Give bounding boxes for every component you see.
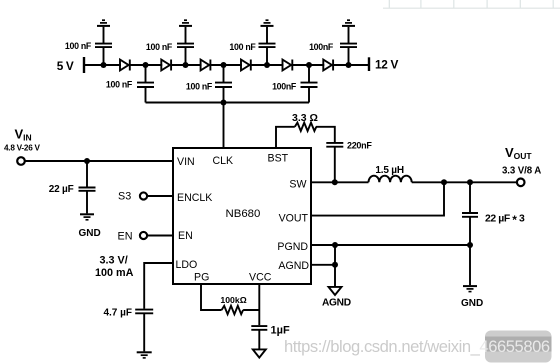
wire SW to inductor <box>311 181 369 183</box>
node AGND junction <box>332 262 338 268</box>
ground above C5 <box>261 20 274 26</box>
resistor R2 100k <box>222 306 243 314</box>
capacitor C10 1uF <box>251 326 267 348</box>
background table fragment top right <box>383 0 560 8</box>
diode D1 <box>120 60 130 71</box>
capacitor C5 100nF up <box>259 27 276 65</box>
svg-text:PG: PG <box>194 272 209 284</box>
svg-text:VIN: VIN <box>177 156 195 168</box>
svg-text:PGND: PGND <box>277 241 308 253</box>
svg-text:1.5 µH: 1.5 µH <box>375 165 403 176</box>
svg-text:100 nF: 100 nF <box>65 41 92 51</box>
ground below C12 <box>463 286 477 292</box>
wire VOUT sense <box>311 182 444 215</box>
diode D6 <box>323 60 333 71</box>
capacitor C2 100nF down <box>137 65 154 103</box>
wire PGND <box>311 244 470 246</box>
node rail 1 <box>101 62 107 68</box>
node rail 6 <box>306 62 312 68</box>
ground triangle AGND <box>329 287 342 295</box>
wire EN to IC <box>147 235 173 237</box>
ground below C8 <box>80 214 94 220</box>
terminal 5V <box>83 58 85 72</box>
svg-text:12 V: 12 V <box>375 58 398 72</box>
resistor R1 3.3ohm <box>295 123 316 131</box>
svg-text:BST: BST <box>268 153 289 165</box>
op-amp U1 NB680 body <box>173 148 311 284</box>
terminal 12V <box>368 59 370 70</box>
svg-text:3.3 V/: 3.3 V/ <box>100 255 128 267</box>
svg-text:100nF: 100nF <box>272 82 297 92</box>
svg-text:EN: EN <box>118 231 133 243</box>
svg-text:4.8 V-26 V: 4.8 V-26 V <box>4 144 41 153</box>
capacitor C12 22uF*3 <box>462 182 478 285</box>
ground above C3 <box>179 20 192 26</box>
wire BST loop <box>276 127 335 148</box>
svg-text:1µF: 1µF <box>271 325 290 337</box>
capacitor C4 100nF down <box>215 65 232 103</box>
node rail 4 <box>221 62 227 68</box>
wire LDO <box>144 263 173 309</box>
node rail 5 <box>264 62 270 68</box>
capacitor C1 100nF up <box>95 27 112 65</box>
capacitor C7 100nF up <box>340 27 357 65</box>
wire charge pump top rail <box>84 64 369 66</box>
node PGND-C12 junction <box>467 242 473 248</box>
svg-text:GND: GND <box>79 228 101 239</box>
wire S3 to ENCLK <box>147 195 173 197</box>
svg-text:4.7 µF: 4.7 µF <box>103 308 132 319</box>
svg-text:AGND: AGND <box>278 260 309 272</box>
node SW output 1 <box>441 179 447 185</box>
svg-text:100 nF: 100 nF <box>186 82 213 92</box>
svg-text:AGND: AGND <box>322 298 351 309</box>
svg-text:220nF: 220nF <box>347 141 372 151</box>
svg-text:22 µF: 22 µF <box>49 184 74 195</box>
svg-text:CLK: CLK <box>213 155 234 167</box>
svg-text:https://blog.csdn.net/weixin_4: https://blog.csdn.net/weixin_46655806 <box>284 337 550 356</box>
capacitor C6 100nF down <box>301 65 318 103</box>
svg-text:100nF: 100nF <box>309 42 334 52</box>
capacitor C3 100nF up <box>177 27 194 65</box>
diode D3 <box>201 60 211 71</box>
svg-text:3.3 Ω: 3.3 Ω <box>292 112 318 124</box>
wire inductor to VOUT terminal <box>412 181 517 183</box>
capacitor C8 22uF <box>79 161 96 213</box>
wire VCC down <box>258 284 260 325</box>
svg-text:SW: SW <box>289 179 306 191</box>
svg-text:GND: GND <box>461 298 483 309</box>
svg-text:EN: EN <box>178 230 193 242</box>
svg-text:VCC: VCC <box>249 272 272 284</box>
svg-text:100 nF: 100 nF <box>146 42 173 52</box>
wire resistor to VCC <box>243 309 259 311</box>
watermark <box>284 331 552 363</box>
diode D5 <box>283 60 293 71</box>
inductor L1 1.5uH <box>369 176 412 183</box>
svg-text:NB680: NB680 <box>226 208 261 220</box>
wire charge pump bottom bus <box>146 102 310 104</box>
ground above C7 <box>342 20 355 26</box>
diode D4 <box>241 60 251 71</box>
wire PG <box>201 284 222 310</box>
svg-text:ENCLK: ENCLK <box>177 192 212 204</box>
svg-text:100 nF: 100 nF <box>106 80 133 90</box>
svg-text:3.3 V/8 A: 3.3 V/8 A <box>502 166 541 177</box>
svg-text:5 V: 5 V <box>57 59 74 73</box>
node bus CLK junction <box>221 100 227 106</box>
capacitor C11 220nF <box>326 143 343 182</box>
svg-text:LDO: LDO <box>176 259 198 271</box>
node rail 2 <box>143 62 149 68</box>
svg-text:100kΩ: 100kΩ <box>220 295 246 305</box>
ground above C1 <box>97 20 110 26</box>
wire AGND <box>311 245 335 286</box>
ground triangle below C10 <box>253 349 266 357</box>
node BST-SW junction <box>332 179 338 185</box>
terminal S3 <box>140 192 147 199</box>
wire CLK to IC <box>223 103 225 149</box>
terminal EN <box>140 232 147 239</box>
node VIN / C8 <box>84 158 90 164</box>
node rail 3 <box>183 62 189 68</box>
diode D2 <box>161 60 171 71</box>
svg-text:100 mA: 100 mA <box>95 267 134 279</box>
svg-text:100 nF: 100 nF <box>229 42 256 52</box>
terminal VOUT output <box>517 179 525 187</box>
wire VIN rail <box>25 160 173 162</box>
node PGND-AGND junction <box>332 242 338 248</box>
node SW output 2 <box>467 179 473 185</box>
node rail 7 <box>346 62 352 68</box>
svg-text:VOUT: VOUT <box>279 213 309 225</box>
svg-text:S3: S3 <box>118 191 131 203</box>
capacitor C9 4.7uF <box>135 310 153 352</box>
terminal VIN input <box>17 157 25 165</box>
ground below C9 <box>137 352 152 358</box>
